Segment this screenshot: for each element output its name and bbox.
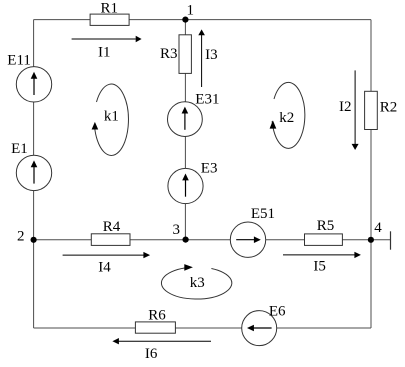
current arrow I2	[352, 70, 359, 150]
wire left (E11/E1 branch)	[33, 20, 35, 328]
svg-text:E6: E6	[269, 303, 286, 319]
svg-text:R4: R4	[103, 219, 121, 235]
resistor R5	[305, 234, 343, 246]
resistor R1	[90, 14, 129, 25]
svg-text:k1: k1	[104, 109, 119, 125]
svg-text:I3: I3	[205, 47, 218, 63]
svg-text:E31: E31	[195, 92, 219, 108]
wire middle vertical node1-node3	[184, 20, 186, 240]
source E6	[242, 311, 277, 346]
svg-text:I1: I1	[98, 44, 111, 60]
source E51	[230, 222, 265, 257]
svg-text:E51: E51	[251, 206, 275, 222]
svg-text:2: 2	[17, 228, 25, 244]
svg-text:R3: R3	[160, 46, 178, 62]
wire top (node1 rail)	[34, 19, 372, 21]
svg-text:I2: I2	[339, 99, 352, 115]
svg-text:E11: E11	[7, 53, 31, 69]
source E3	[168, 168, 203, 203]
resistor R4	[91, 234, 130, 246]
node 1	[182, 17, 188, 23]
wire middle horizontal node2-node4	[34, 239, 371, 241]
loop arrow k3	[161, 264, 231, 299]
svg-text:R6: R6	[148, 308, 166, 324]
source E11	[16, 67, 51, 102]
node 3	[183, 237, 189, 243]
resistor R6	[135, 322, 175, 333]
svg-text:R1: R1	[101, 1, 119, 17]
source E31	[168, 102, 203, 137]
svg-text:R5: R5	[317, 218, 335, 234]
resistor R3	[179, 35, 191, 74]
svg-text:k2: k2	[279, 110, 294, 126]
loop arrow k1	[92, 84, 129, 155]
wire right (R2 branch)	[370, 20, 372, 328]
wire bottom (R6/E6 branch)	[34, 327, 371, 329]
svg-text:I6: I6	[145, 346, 158, 362]
current arrow I6	[112, 338, 211, 344]
svg-text:3: 3	[173, 222, 181, 238]
current arrow I1	[72, 36, 142, 42]
svg-text:E1: E1	[11, 141, 28, 157]
resistor R2	[365, 91, 378, 129]
svg-text:I5: I5	[313, 259, 326, 275]
wire stub node4 terminal	[371, 231, 391, 249]
svg-text:k3: k3	[190, 275, 205, 291]
current arrow I3	[198, 29, 205, 87]
svg-text:E3: E3	[201, 161, 218, 177]
node 4	[368, 237, 374, 243]
loop arrow k2	[270, 82, 305, 148]
svg-text:I4: I4	[98, 259, 111, 275]
current arrow I5	[283, 252, 361, 258]
svg-text:1: 1	[187, 3, 195, 19]
node 2	[30, 237, 36, 243]
svg-text:4: 4	[374, 220, 382, 236]
svg-text:R2: R2	[380, 99, 398, 115]
source E1	[16, 155, 51, 190]
current arrow I4	[63, 252, 151, 258]
